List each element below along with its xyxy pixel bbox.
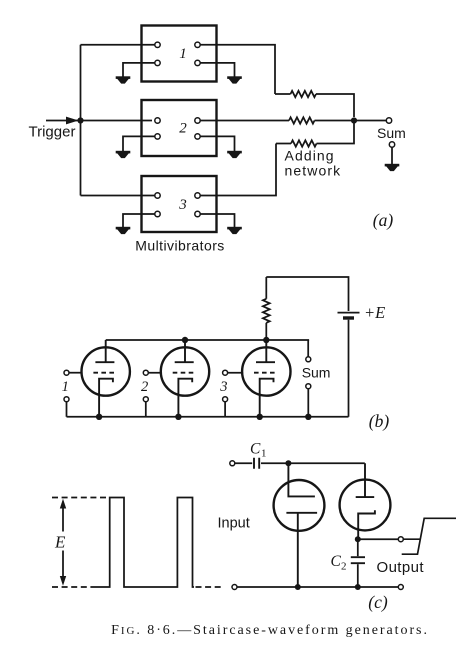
svg-text:(c): (c) <box>368 592 388 612</box>
wire box2 left lower to ground <box>123 136 155 151</box>
svg-text:E: E <box>54 533 66 552</box>
ground (sum (a)) <box>385 165 400 171</box>
wire waveform bottom dashed right (dashed) <box>196 586 223 588</box>
wire R3 left lead <box>276 143 291 145</box>
svg-text:3: 3 <box>219 379 227 395</box>
terminal box1 right lower <box>195 60 200 65</box>
wire box3 output to R3 <box>200 144 276 196</box>
multivibrator box 2 <box>142 100 217 156</box>
terminal input lower (c) <box>232 585 237 590</box>
wire node to C2 <box>357 542 359 556</box>
terminal input 2 lower (b) <box>143 397 148 402</box>
triode V2 grid (dashed) <box>173 372 196 374</box>
wire box2 right lower to ground <box>200 136 234 151</box>
svg-text:C: C <box>250 441 261 458</box>
junction sum node (a) <box>351 117 357 123</box>
wire box1 left lower to ground <box>123 63 155 77</box>
svg-text:FIG. 8·6.—Staircase-waveform g: FIG. 8·6.—Staircase-waveform generators. <box>111 623 429 638</box>
terminal box3 left upper <box>155 193 160 198</box>
triode V5 envelope <box>340 480 391 531</box>
wire box2 output to R2 <box>200 120 289 122</box>
terminal box1 left upper <box>155 42 160 47</box>
junction C2 ground node (c) <box>355 584 361 590</box>
wire cathode/ground bus (b) <box>67 416 349 418</box>
svg-text:2: 2 <box>341 561 347 573</box>
wire sum terminal to ground <box>391 147 393 164</box>
wire grid lead V1 <box>67 372 83 374</box>
terminal input 3 upper (b) <box>223 370 228 375</box>
ground (box 3 right) <box>227 228 242 234</box>
triode V5 plate and lead <box>356 463 375 497</box>
arrowhead on trigger wire <box>66 117 79 125</box>
wire resistor bottom lead (b) <box>265 323 267 340</box>
battery +E plates <box>338 312 360 314</box>
svg-text:C: C <box>331 553 342 570</box>
terminal input 2 upper (b) <box>143 370 148 375</box>
wire R2 to sum node <box>315 120 355 122</box>
resistor R1 (adding network) <box>291 91 317 97</box>
terminal box2 right lower <box>195 134 200 139</box>
triode V3 plate and lead <box>256 340 275 362</box>
wire box1 output to R1 <box>200 45 275 94</box>
multivibrator box 1 <box>142 26 217 82</box>
triode V2 plate and lead <box>175 340 194 362</box>
terminal output lower (c) <box>398 585 403 590</box>
wire sum output <box>354 120 386 122</box>
ground (box 2 right) <box>227 152 242 158</box>
svg-text:2: 2 <box>179 121 187 137</box>
wire output wire <box>358 538 399 540</box>
resistor R2 (adding network) <box>289 117 315 123</box>
wire trigger bus vertical <box>80 45 82 196</box>
triode V4 grid lead (from C1) <box>288 463 315 496</box>
triode V4 envelope <box>274 480 325 531</box>
junction grid node (c) <box>285 460 291 466</box>
junction V3 plate / resistor node <box>263 337 269 343</box>
ground (box 2 left) <box>116 152 131 158</box>
wire R1 to sum node <box>316 94 354 117</box>
multivibrator box 3 <box>142 176 217 232</box>
wire R3 to sum node <box>317 123 355 144</box>
terminal box3 left lower <box>155 211 160 216</box>
svg-text:network: network <box>285 163 342 179</box>
terminal box2 right upper <box>195 118 200 123</box>
junction V3 cathode node <box>257 414 263 420</box>
terminal input 3 lower (b) <box>223 397 228 402</box>
wire plate bus to Sum terminal (b) <box>307 340 309 357</box>
wire waveform top dashed (dashed) <box>52 497 110 499</box>
junction V2 cathode node <box>175 414 181 420</box>
terminal Sum (a) <box>386 118 391 123</box>
wire trigger input <box>46 120 152 122</box>
triode V3 envelope <box>242 347 290 395</box>
terminal box2 left lower <box>155 134 160 139</box>
wire waveform bottom dashed left (dashed) <box>52 586 90 588</box>
wire waveform pulses <box>90 498 194 588</box>
svg-text:1: 1 <box>179 46 187 62</box>
resistor R3 (adding network) <box>291 140 317 146</box>
terminal box1 left lower <box>155 60 160 65</box>
capacitor C2 <box>351 557 365 563</box>
staircase output waveform icon <box>402 518 456 554</box>
wire E amplitude arrow shaft upper <box>62 502 64 532</box>
wire R1 left lead <box>275 93 291 95</box>
svg-text:Trigger: Trigger <box>29 124 76 141</box>
wire battery to bottom bus <box>348 320 350 417</box>
triode V1 grid (dashed) <box>93 372 116 374</box>
wire plate bus (b) <box>106 339 309 341</box>
wire resistor top lead (b) <box>265 277 267 299</box>
arrowhead down (E arrow) <box>60 576 66 586</box>
triode V4 cathode and lead <box>286 513 317 587</box>
ground (box 3 left) <box>116 228 131 234</box>
triode V2 cathode and lead <box>178 379 192 417</box>
wire bus to box3 upper input <box>81 195 155 197</box>
wire box3 left lower to ground <box>123 214 155 227</box>
terminal output upper (c) <box>398 537 403 542</box>
resistor R (plate load, b) <box>263 299 270 323</box>
wire Sum lower to bus (b) <box>307 389 309 417</box>
svg-text:2: 2 <box>141 379 148 395</box>
svg-text:1: 1 <box>62 379 69 395</box>
triode V2 envelope <box>161 347 209 395</box>
svg-text:Input: Input <box>218 516 250 532</box>
junction output node (c) <box>355 536 361 542</box>
terminal Sum lower (b) <box>306 384 311 389</box>
junction V4 cathode node (c) <box>295 584 301 590</box>
svg-text:Adding: Adding <box>285 148 335 164</box>
terminal sum ground terminal (a) <box>389 142 394 147</box>
svg-text:Sum: Sum <box>302 365 331 381</box>
wire box3 right lower to ground <box>200 214 234 227</box>
ground (box 1 left) <box>116 78 131 84</box>
wire input 2 lower to bus <box>145 402 147 417</box>
triode V1 envelope <box>82 347 130 395</box>
wire E amplitude arrow shaft lower <box>62 551 64 584</box>
triode V3 grid (dashed) <box>254 372 277 374</box>
svg-text:(b): (b) <box>369 411 390 431</box>
wire grid lead V2 <box>146 372 162 374</box>
wire bus to box1 upper input <box>81 44 155 46</box>
arrowhead up (E arrow) <box>60 499 66 509</box>
terminal box1 right upper <box>195 42 200 47</box>
terminal input 1 upper (b) <box>64 370 69 375</box>
junction V1 cathode node <box>96 414 102 420</box>
triode V3 cathode and lead <box>260 379 274 417</box>
junction sum return node (b) <box>305 414 311 420</box>
terminal box3 right lower <box>195 211 200 216</box>
svg-text:1: 1 <box>261 448 267 460</box>
svg-text:Multivibrators: Multivibrators <box>135 238 225 254</box>
terminal box3 right upper <box>195 193 200 198</box>
svg-text:Sum: Sum <box>377 125 406 141</box>
wire C1 to grid node and V5 plate <box>261 462 365 464</box>
svg-text:3: 3 <box>178 197 187 213</box>
wire input 3 lower to bus <box>224 402 226 417</box>
terminal input 1 lower (b) <box>64 397 69 402</box>
wire input to C1 <box>235 462 252 464</box>
capacitor C1 <box>254 458 259 469</box>
wire box1 right lower to ground <box>200 63 234 77</box>
wire ground bus (c) <box>237 586 398 588</box>
triode V1 plate and lead <box>95 340 114 362</box>
terminal Sum upper (b) <box>306 357 311 362</box>
terminal box2 left upper <box>155 118 160 123</box>
svg-text:+E: +E <box>364 303 385 322</box>
ground (box 1 right) <box>227 78 242 84</box>
triode V5 cathode and lead <box>358 510 375 539</box>
wire grid lead V3 <box>225 372 243 374</box>
svg-text:Output: Output <box>377 559 425 576</box>
junction trigger node <box>77 117 83 123</box>
wire input 1 lower to bus <box>66 402 68 417</box>
triode V1 cathode and lead <box>99 379 113 417</box>
wire top wire to battery (b) <box>266 277 348 311</box>
junction V2 plate node <box>182 337 188 343</box>
wire C2 to ground bus <box>357 564 359 587</box>
terminal input upper (c) <box>230 461 235 466</box>
svg-text:(a): (a) <box>373 210 394 230</box>
